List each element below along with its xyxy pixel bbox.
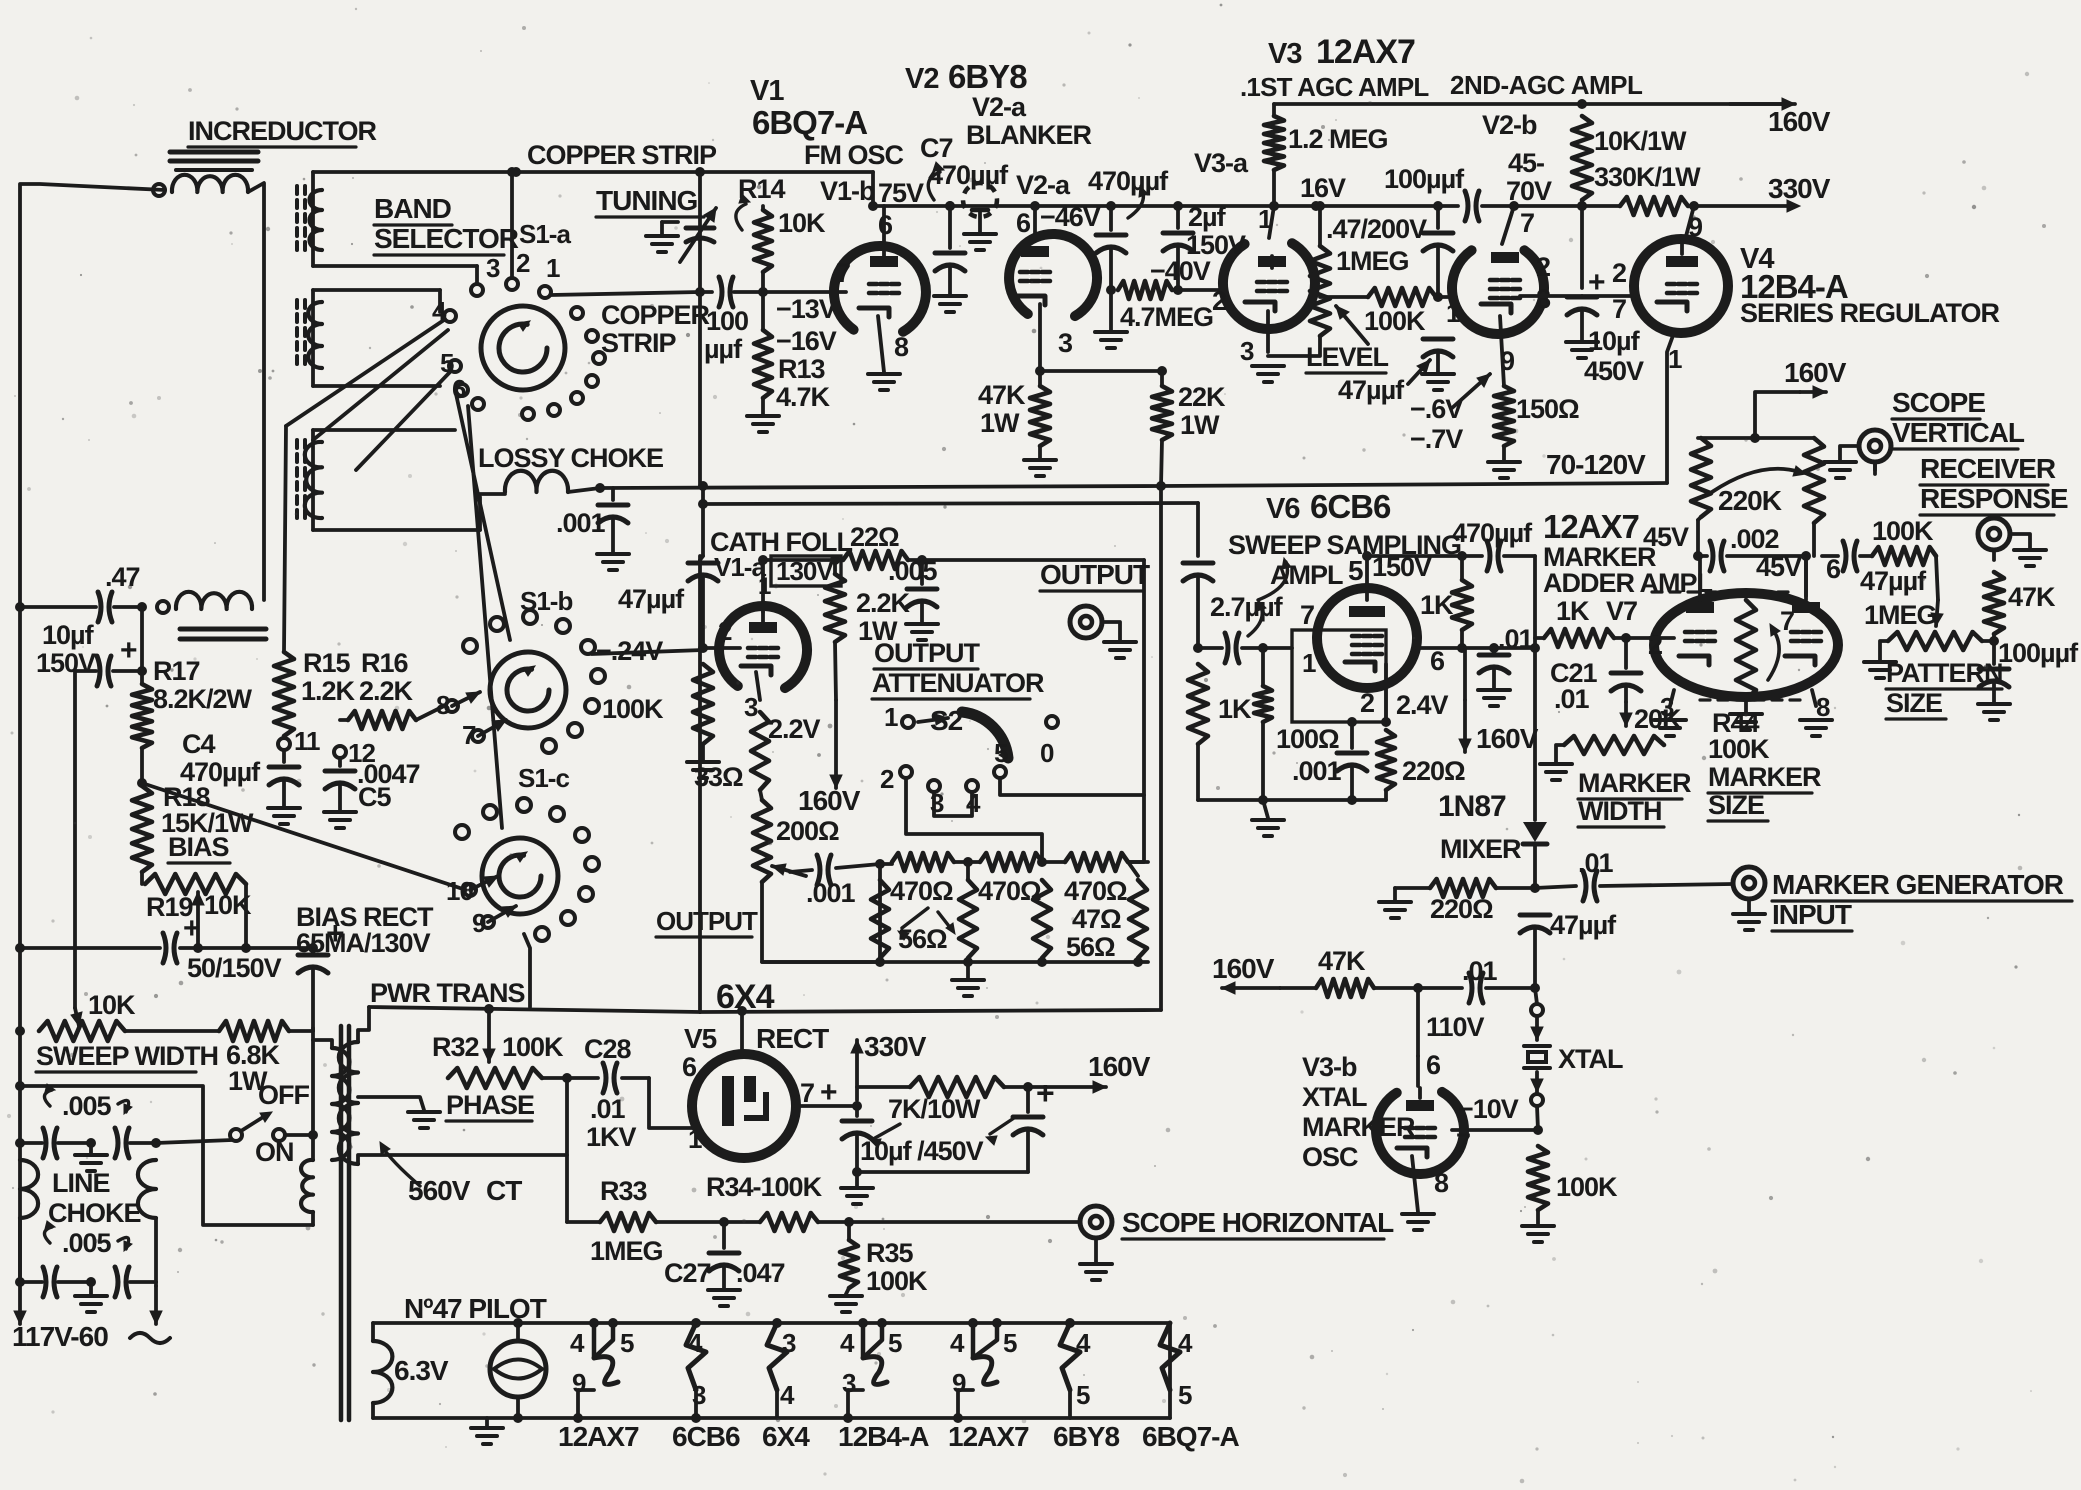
capacitor C5 .0047 [338, 758, 342, 766]
svg-text:SIZE: SIZE [1886, 688, 1942, 718]
potentiometer R32 100K [487, 1009, 491, 1062]
tube V5 6X4 [692, 1054, 796, 1158]
heater 6CB6 [691, 1318, 701, 1328]
svg-text:5: 5 [994, 738, 1008, 768]
svg-text:4.7MEG: 4.7MEG [1120, 302, 1213, 332]
svg-text:100: 100 [706, 306, 748, 336]
wire 470uuf rail [1367, 554, 1462, 558]
svg-text:1K: 1K [1556, 596, 1590, 626]
capacitor 470uuf (series) [1462, 554, 1482, 558]
svg-text:2: 2 [1648, 630, 1662, 660]
svg-text:45V: 45V [1756, 552, 1802, 582]
svg-text:S1-c: S1-c [518, 763, 569, 793]
svg-text:V7: V7 [1606, 596, 1637, 626]
svg-text:6: 6 [1016, 208, 1031, 238]
svg-text:47Ω: 47Ω [1072, 904, 1121, 934]
svg-text:1K: 1K [1420, 590, 1454, 620]
svg-text:1K: 1K [1218, 694, 1252, 724]
svg-text:.47: .47 [105, 562, 140, 592]
jack MARKER GENERATOR INPUT [1733, 867, 1765, 899]
heater 12B4-A [858, 1318, 868, 1328]
capacitor 10uf/450V [1580, 206, 1584, 288]
coil core dashes box2 [295, 300, 299, 308]
svg-text:1W: 1W [1180, 410, 1220, 440]
svg-text:12AX7: 12AX7 [558, 1421, 639, 1452]
svg-text:+: + [120, 634, 137, 667]
svg-text:6.3V: 6.3V [394, 1355, 449, 1386]
ground [934, 294, 966, 298]
wire [73, 671, 77, 1008]
svg-text:MIXER: MIXER [1440, 834, 1521, 864]
wire grid to xtal col [1452, 1128, 1538, 1132]
ground [830, 1294, 862, 1298]
svg-text:100µµf: 100µµf [1998, 638, 2079, 668]
wire [140, 607, 144, 671]
resistor right col [1129, 880, 1147, 958]
svg-text:12AX7: 12AX7 [1316, 33, 1415, 71]
svg-text:470µµf: 470µµf [1452, 518, 1533, 548]
capacitor 47uuf (mixer) [1520, 913, 1550, 918]
svg-text:−10V: −10V [1458, 1094, 1519, 1124]
heater winding 6.3V [373, 1341, 392, 1403]
svg-text:5: 5 [1348, 555, 1363, 586]
wire tuning box left edge [510, 172, 514, 277]
wire V2-a cathode row [1040, 369, 1162, 373]
wire box3 bottom [313, 528, 480, 532]
svg-text:BLANKER: BLANKER [966, 120, 1091, 150]
pilot lamp [490, 1341, 546, 1397]
wire marker bus x1535 [1533, 648, 1537, 820]
wire V7 pin8 ground [1812, 690, 1816, 706]
terminal 12 [334, 746, 346, 758]
XTAL chain [1531, 1004, 1543, 1016]
svg-text:3: 3 [486, 253, 500, 283]
S1-c contacts 10,9 [464, 884, 476, 896]
wire box1 bottom [313, 264, 477, 268]
resistor R16 2.2K (horizontal) [340, 718, 348, 722]
svg-text:2.7µµf: 2.7µµf [1210, 592, 1284, 622]
wire secondary bottom [358, 1155, 567, 1164]
wire 110V drop [1416, 988, 1420, 1056]
wire [244, 884, 248, 948]
box 130V [771, 556, 841, 586]
svg-text:1.2K: 1.2K [301, 676, 356, 706]
wire S1-b to grid [592, 650, 703, 654]
wire box2 left [311, 290, 315, 386]
svg-text:6CB6: 6CB6 [672, 1421, 740, 1452]
ground [1730, 712, 1762, 716]
resistor 47K (receiver) [1984, 572, 2004, 634]
svg-text:INCREDUCTOR: INCREDUCTOR [188, 116, 377, 146]
capacitor C28 .01 1KV [567, 1076, 598, 1080]
resistor R33 1MEG [567, 1220, 600, 1224]
svg-text:SELECTOR: SELECTOR [374, 223, 519, 254]
wire to scope horiz jack [849, 1220, 1078, 1224]
wire [20, 184, 165, 607]
wire pwr rail [369, 1007, 700, 1012]
capacitor 100uuf (series) [1438, 204, 1458, 208]
resistor 6.8K 1W [219, 1021, 289, 1041]
ground [89, 1282, 93, 1294]
svg-text:2: 2 [516, 248, 530, 278]
svg-text:R16: R16 [361, 648, 409, 678]
svg-text:Nº47 PILOT: Nº47 PILOT [404, 1293, 547, 1324]
wire pin7 drop [1804, 556, 1808, 596]
svg-text:5: 5 [888, 1328, 902, 1358]
neon blanker lamp [963, 183, 997, 217]
wire [125, 1029, 219, 1033]
svg-text:470Ω: 470Ω [890, 876, 953, 906]
svg-text:4: 4 [840, 1328, 855, 1358]
svg-text:COPPER: COPPER [601, 300, 710, 330]
svg-text:12AX7: 12AX7 [948, 1421, 1029, 1452]
svg-text:2.2K: 2.2K [856, 588, 911, 618]
resistor R15 1.2K [274, 652, 294, 736]
svg-text:STRIP: STRIP [601, 328, 677, 358]
svg-text:OUTPUT: OUTPUT [656, 906, 758, 936]
jack SCOPE VERTICAL [1859, 430, 1891, 462]
switch S1-b wafer [490, 652, 566, 728]
svg-text:10µf: 10µf [42, 620, 95, 650]
potentiometer 220K [1698, 517, 1701, 520]
ground [2014, 548, 2046, 552]
svg-text:MARKER GENERATOR: MARKER GENERATOR [1772, 869, 2064, 900]
tube V1-a [719, 606, 807, 688]
wire C28 box [649, 1078, 700, 1128]
capacitor 2.7uuf [1183, 561, 1213, 566]
ground [1024, 458, 1056, 462]
svg-text:OUTPUT: OUTPUT [1040, 559, 1150, 590]
dashed V7 connections [1652, 590, 1790, 593]
svg-text:160V: 160V [1212, 953, 1275, 984]
svg-text:8: 8 [1434, 1168, 1449, 1198]
wire vertical C x1161 [1159, 486, 1163, 1010]
wire S1-c down to pwr rail [524, 934, 530, 1007]
ground [708, 1288, 740, 1292]
svg-text:+: + [1036, 1075, 1054, 1111]
resistor 100K (V1-a grid) [693, 664, 713, 744]
svg-text:3: 3 [1058, 328, 1073, 358]
svg-text:7: 7 [1780, 606, 1794, 636]
ground [1522, 1224, 1554, 1228]
svg-text:−46V: −46V [1040, 202, 1101, 232]
capacitor .002 [1710, 541, 1713, 571]
svg-text:110V: 110V [1426, 1012, 1485, 1042]
tube V3-b [1376, 1092, 1464, 1174]
svg-text:450V: 450V [1584, 356, 1644, 386]
inductor band coil 3 [305, 442, 322, 518]
svg-text:WIDTH: WIDTH [1578, 796, 1661, 826]
S1-a left contacts 4,5,6 [444, 310, 456, 322]
svg-text:200Ω: 200Ω [776, 816, 839, 846]
svg-text:117V-60: 117V-60 [12, 1321, 108, 1352]
svg-text:47µµf: 47µµf [1550, 910, 1617, 940]
arrow 330V [855, 1040, 859, 1100]
svg-text:V2-b: V2-b [1482, 110, 1537, 140]
svg-text:S1-a: S1-a [519, 219, 571, 249]
resistor R44 100K (marker size) [1736, 600, 1756, 700]
svg-text:R15: R15 [303, 648, 351, 678]
svg-text:ATTENUATOR: ATTENUATOR [872, 668, 1044, 698]
svg-text:PWR TRANS: PWR TRANS [370, 978, 525, 1008]
svg-text:1: 1 [758, 573, 771, 600]
ground V3-a cathode [1252, 364, 1284, 368]
svg-text:8: 8 [1816, 692, 1830, 722]
pilot box [373, 1321, 1170, 1325]
resistor 1K (V6 plate) [1452, 580, 1472, 630]
svg-text:7: 7 [836, 258, 850, 288]
svg-text:1W: 1W [980, 408, 1020, 438]
wire primary top [313, 1040, 332, 1048]
resistor 470ohm #2 [980, 853, 1042, 871]
wire main rail y206 [873, 204, 1438, 208]
wire second rail [20, 1086, 313, 1225]
resistor 33 ohm [751, 712, 769, 790]
arrow 160V (2.2K) [835, 642, 836, 700]
svg-text:100K: 100K [502, 1032, 564, 1062]
svg-text:FM OSC: FM OSC [804, 140, 903, 170]
svg-text:160V: 160V [798, 785, 861, 816]
svg-text:V2-a: V2-a [1016, 170, 1071, 200]
wire S2 staircase 2 [1000, 779, 1144, 795]
svg-text:100Ω: 100Ω [1276, 724, 1339, 754]
svg-text:470Ω: 470Ω [978, 876, 1041, 906]
V6 grid box [1263, 646, 1292, 650]
svg-text:7K/10W: 7K/10W [888, 1094, 981, 1124]
svg-text:V3-a: V3-a [1194, 148, 1249, 178]
tube V7 (12AX7) oval [1654, 593, 1838, 697]
capacitor 47uuf cath foll [688, 561, 718, 566]
svg-text:.001: .001 [806, 878, 856, 908]
ground [1080, 1262, 1112, 1266]
svg-text:10µf: 10µf [1588, 326, 1641, 356]
wire rail 160V (top) [1274, 102, 1786, 106]
S2 contacts [900, 766, 912, 778]
ground [868, 372, 900, 376]
svg-text:100K: 100K [1364, 306, 1426, 336]
resistor 56ohm #1 [871, 880, 889, 958]
svg-text:56Ω: 56Ω [1066, 932, 1115, 962]
wire cap bottom row [857, 1170, 1028, 1174]
svg-text:INPUT: INPUT [1772, 899, 1852, 930]
heater 12AX7 #1 [589, 1318, 599, 1328]
heater 6X4 [772, 1318, 782, 1328]
pwr primary coil [332, 1048, 350, 1160]
svg-text:5: 5 [1003, 1328, 1017, 1358]
svg-text:LOSSY CHOKE: LOSSY CHOKE [478, 443, 663, 473]
V7 left unit internals [1686, 602, 1714, 613]
svg-text:7: 7 [1612, 294, 1626, 324]
svg-text:−40V: −40V [1150, 256, 1211, 286]
svg-text:.002: .002 [1730, 524, 1779, 554]
svg-text:OFF: OFF [258, 1080, 309, 1110]
resistor 47K 1W [1030, 386, 1050, 446]
svg-text:2: 2 [1612, 258, 1626, 288]
ground [747, 414, 779, 418]
resistor 470ohm #3 [1065, 853, 1128, 871]
svg-text:47µµf: 47µµf [618, 584, 685, 614]
svg-text:470µµf: 470µµf [1088, 166, 1169, 196]
scan noise speckles [674, 226, 678, 230]
svg-text:6BY8: 6BY8 [1053, 1421, 1119, 1452]
wire 330V arrow [1694, 204, 1790, 208]
S1-b contacts 8,7 [446, 700, 458, 712]
ground 4.7MEG left [1109, 290, 1113, 330]
svg-text:RECEIVER: RECEIVER [1920, 453, 2056, 484]
svg-text:CT: CT [486, 1175, 522, 1206]
svg-text:22Ω: 22Ω [850, 522, 899, 552]
jack RECEIVER RESPONSE [1978, 518, 2010, 550]
potentiometer 10K sweep width [39, 1021, 125, 1041]
wire rail y172 to V1 [871, 172, 875, 206]
wire 1MEG right to 47K [1982, 639, 1994, 643]
svg-text:16V: 16V [1300, 173, 1346, 203]
capacitor .47/200V [1436, 206, 1440, 228]
resistor 470ohm #1 [892, 853, 954, 871]
ground [1540, 762, 1572, 766]
ground pilot [485, 1418, 489, 1426]
wire 160V row (xtal) [1222, 986, 1280, 990]
heater 6BY8 [1065, 1318, 1075, 1328]
svg-text:8: 8 [1536, 284, 1551, 314]
svg-text:3: 3 [1240, 336, 1254, 366]
tube V3-a (12AX7 half) [1223, 243, 1315, 329]
svg-text:SWEEP WIDTH: SWEEP WIDTH [36, 1041, 218, 1071]
wire TUNING box bottom [551, 292, 700, 295]
svg-text:160V: 160V [1088, 1051, 1151, 1082]
wire central box bottom [700, 556, 703, 560]
wire top rail (copper strip) [313, 170, 873, 174]
svg-text:SCOPE: SCOPE [1892, 387, 1985, 418]
svg-text:4.7K: 4.7K [776, 382, 831, 412]
wire switch to primary [285, 1133, 313, 1137]
capacitor 47uuf (V7 out) [1843, 541, 1846, 571]
inductor band coil 1 [310, 190, 323, 250]
svg-text:2.2K: 2.2K [359, 676, 414, 706]
resistor 47/56 col [1033, 880, 1051, 958]
svg-text:µµf: µµf [704, 334, 743, 364]
svg-text:9: 9 [472, 908, 486, 938]
wire rail y504 [703, 503, 1198, 504]
svg-text:+: + [183, 912, 200, 945]
svg-text:7: 7 [1456, 1128, 1470, 1158]
wire 160V out [1004, 1085, 1028, 1089]
wire grid row y292 [700, 290, 712, 294]
svg-text:6BY8: 6BY8 [948, 58, 1027, 95]
svg-text:160V: 160V [1768, 106, 1831, 137]
svg-text:1N87: 1N87 [1438, 790, 1506, 823]
ground [687, 760, 719, 764]
svg-text:2µf: 2µf [1188, 202, 1227, 232]
tube V2-a [1009, 234, 1097, 316]
capacitor .005 upper-left [20, 1141, 42, 1145]
wire .002 row [1698, 554, 1707, 558]
svg-text:7: 7 [462, 720, 476, 750]
svg-text:70-120V: 70-120V [1546, 449, 1646, 480]
resistor 10K/1W [1572, 116, 1592, 200]
capacitor C7 470uuf (shunt) [948, 206, 952, 248]
svg-text:100µµf: 100µµf [1384, 164, 1465, 194]
resistor R34 100K [760, 1213, 818, 1231]
resistor R18 15K/1W [132, 786, 152, 872]
wire rail to 10K/1W [1514, 204, 1582, 208]
svg-text:−.6V: −.6V [1410, 394, 1463, 424]
svg-text:12B4-A: 12B4-A [838, 1421, 929, 1452]
wire to S2 [922, 558, 1144, 562]
capacitor .005 upper-right [115, 1128, 118, 1158]
svg-text:R13: R13 [778, 354, 826, 384]
svg-text:10K: 10K [778, 208, 826, 238]
wire 160V (220K top) [1755, 392, 1800, 438]
wire V6 plate to 1K [1417, 646, 1462, 650]
resistor 22K 1W [1160, 371, 1164, 386]
wire plate row y560 [763, 558, 835, 562]
svg-text:2.4V: 2.4V [1396, 690, 1449, 720]
ground [408, 1110, 440, 1114]
capacitor series (V6 input) [1198, 646, 1222, 650]
svg-text:56Ω: 56Ω [898, 924, 947, 954]
transformer core (increductor) [170, 150, 258, 155]
ground attenuator [966, 962, 970, 978]
svg-text:C27: C27 [664, 1258, 711, 1288]
svg-text:LINE: LINE [52, 1168, 110, 1198]
capacitor .005 [920, 560, 924, 584]
svg-text:3: 3 [744, 692, 758, 722]
ground [1252, 818, 1284, 822]
wire 50/150V rail [20, 946, 160, 950]
wire cathode V1-a [756, 672, 760, 700]
svg-text:47K: 47K [2008, 582, 2056, 612]
resistor 100K (pattern) [1872, 547, 1936, 565]
svg-text:6CB6: 6CB6 [1310, 488, 1391, 525]
resistor 150ohm [1494, 386, 1514, 446]
svg-text:6: 6 [1826, 554, 1841, 584]
svg-text:BIAS: BIAS [168, 832, 229, 862]
svg-text:47K: 47K [978, 380, 1026, 410]
wire attenuator input [878, 864, 882, 962]
svg-text:100K: 100K [602, 694, 664, 724]
capacitor .001 (output) [790, 870, 812, 872]
svg-text:8: 8 [894, 332, 909, 362]
inductor lossy choke [480, 492, 505, 496]
svg-text:V5: V5 [684, 1023, 717, 1054]
svg-text:V3-b: V3-b [1302, 1052, 1357, 1082]
svg-text:330V: 330V [864, 1031, 927, 1062]
wire V5 pin7 [796, 1104, 857, 1108]
ground [89, 1143, 93, 1153]
coil core dashes box1 [295, 186, 299, 194]
wire 220K left leg [1696, 520, 1700, 556]
wire attenuator bottom rail [762, 960, 1148, 964]
potentiometer 1MEG (pattern size) [1888, 632, 1982, 650]
ground [1978, 702, 2010, 706]
svg-text:470Ω: 470Ω [1064, 876, 1127, 906]
potentiometer 20K marker width [1564, 736, 1664, 754]
svg-text:V2-a: V2-a [972, 92, 1027, 122]
svg-text:75V: 75V [878, 178, 924, 208]
svg-text:2: 2 [1212, 286, 1226, 316]
capacitor 10uf/450V #1 [855, 1106, 859, 1116]
wire to switch [156, 1140, 232, 1143]
transformer core (pwr) [339, 1026, 344, 1420]
svg-text:SCOPE HORIZONTAL: SCOPE HORIZONTAL [1122, 1207, 1394, 1238]
svg-text:−.7V: −.7V [1410, 424, 1463, 454]
svg-text:70V: 70V [1506, 176, 1552, 206]
wire box2 bottom [313, 384, 440, 388]
svg-text:50/150V: 50/150V [187, 953, 282, 983]
svg-text:RESPONSE: RESPONSE [1920, 483, 2068, 514]
capacitor C4 470uuf [282, 750, 286, 762]
